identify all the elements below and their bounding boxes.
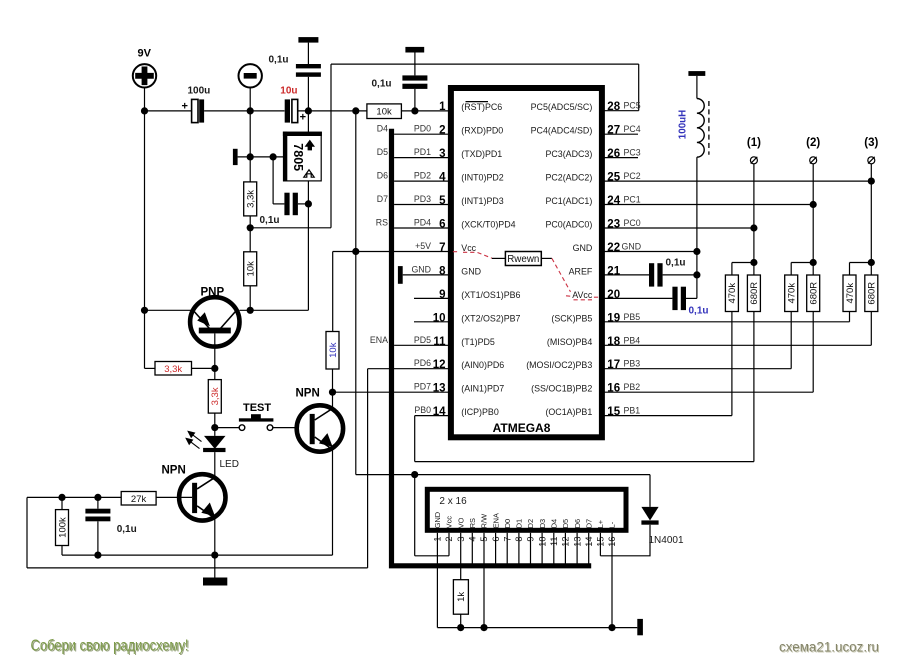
footer slogan [31,638,190,656]
svg-text:9: 9 [439,289,445,301]
resistor 470k (1) [725,275,738,312]
svg-text:10k: 10k [376,107,392,118]
wire LCD pin6 ena to bus [495,533,497,564]
resistor 470k (2) [785,275,798,312]
svg-text:(ICP)PB0: (ICP)PB0 [461,407,499,417]
svg-text:D4: D4 [550,519,559,528]
wire 7805 input [307,111,309,132]
svg-text:0,1u: 0,1u [260,215,280,226]
svg-text:(INT1)PD3: (INT1)PD3 [461,196,503,206]
wire pin20 row [604,297,672,299]
wire base rail bypass loop [27,369,368,568]
svg-text:12: 12 [433,359,446,371]
wire LCD pin1 gnd [436,533,438,628]
svg-text:PC4(ADC4/SD): PC4(ADC4/SD) [531,126,593,136]
svg-text:(SS/OC1B)PB2: (SS/OC1B)PB2 [531,384,592,394]
voltage regulator 7805 [283,132,322,182]
wire 3,3k to LED [214,413,216,436]
node dot minus rail [247,107,254,114]
svg-text:PB3: PB3 [624,359,641,369]
svg-text:PC0: PC0 [624,218,641,228]
wire LCD pin16 to gnd row [611,533,613,628]
svg-text:(SCK)PB5: (SCK)PB5 [551,313,592,323]
svg-text:GND: GND [411,264,431,274]
svg-text:24: 24 [607,195,620,207]
IC U1 ATMEGA8 body [451,88,602,437]
svg-text:26: 26 [607,148,620,160]
LED emission arrows [186,431,201,448]
svg-text:2: 2 [439,125,445,137]
pushbutton TEST [239,402,274,431]
ground bar at 7805 gnd pin [233,149,238,165]
resistor 100k [56,497,69,555]
svg-text:AVcc: AVcc [572,290,593,300]
wire 9V to 3,3k [145,367,156,369]
wire pin26 stub [604,157,638,159]
svg-text:0,1u: 0,1u [117,524,137,535]
svg-text:PC4: PC4 [624,124,641,134]
wire pin9 stub [414,297,449,299]
svg-text:RS: RS [468,518,477,528]
node dot LED/TEST [211,424,218,431]
svg-text:(XCK/T0)PD4: (XCK/T0)PD4 [461,220,515,230]
node dot 100k top [58,494,65,501]
node dot A [247,224,254,231]
svg-text:100u: 100u [188,86,211,97]
svg-text:PC3: PC3 [624,148,641,158]
pin numbers left 1-14 [433,101,446,418]
bus-side labels D4-D7 RS ENA [370,124,388,345]
outside labels left of IC [411,124,431,415]
ground bar above C 0,1u [298,37,318,43]
svg-text:PC2(ADC2): PC2(ADC2) [545,173,592,183]
resistor 680R (1) [747,275,760,312]
svg-text:Собери свою радиосхему!: Собери свою радиосхему! [31,638,189,655]
node dot t1/pc0 [750,224,757,231]
node dot RST/10k left [352,107,359,114]
svg-text:PB4: PB4 [624,335,641,345]
svg-text:100k: 100k [57,517,68,538]
IC inside pin labels right [526,102,593,417]
svg-text:L-: L- [608,521,617,528]
svg-text:(INT0)PD2: (INT0)PD2 [461,173,503,183]
wire pin28 to top rail [604,110,638,112]
svg-text:2 x 16: 2 x 16 [439,496,467,507]
wire 10k to Q3 collector [332,369,334,409]
svg-text:ATMEGA8: ATMEGA8 [493,421,551,435]
capacitor 0,1u (7805 output) [260,193,309,227]
node dot pair2 top [810,259,817,266]
wire pin14 row [415,312,754,462]
wire gnd stub [214,555,216,577]
svg-text:(MOSI/OC2)PB3: (MOSI/OC2)PB3 [526,360,592,370]
svg-text:NPN: NPN [162,465,186,477]
svg-text:680R: 680R [809,282,820,305]
svg-text:0,1u: 0,1u [269,55,289,66]
svg-text:TEST: TEST [243,402,271,414]
capacitor 0,1u (RST) [372,53,428,111]
capacitor 0,1u (AVcc, blue label) [672,287,708,317]
svg-text:GND: GND [461,266,481,276]
wire pin22 gnd row [604,251,697,253]
resistor 680R (3) [865,275,878,312]
svg-text:PD1: PD1 [414,147,431,157]
svg-text:PNP: PNP [201,287,225,299]
wire LCD pin2 vcc [415,475,449,556]
svg-text:PD3: PD3 [414,194,431,204]
resistor 27k [121,492,156,506]
svg-text:100uH: 100uH [677,110,688,139]
node dot LCD Vcc tap [411,471,418,478]
svg-text:0,1u: 0,1u [689,306,709,317]
svg-text:10u: 10u [280,86,297,97]
ground bar above C4 [405,47,424,53]
svg-text:GND: GND [622,241,642,251]
svg-text:(RST)PC6: (RST)PC6 [461,102,502,112]
wire bypass cap leg [273,157,284,204]
wire pin6 stub to bus [394,227,448,229]
svg-text:(2): (2) [806,137,820,149]
capacitor 0,1u (AREF) [649,257,697,286]
node dot cap top [94,494,101,501]
svg-text:PB2: PB2 [624,382,641,392]
pin numbers right 28-15 [607,101,620,418]
svg-text:D1: D1 [515,519,524,528]
svg-text:RS: RS [376,218,388,228]
wire riser to top rail [330,64,332,228]
svg-text:LED: LED [220,459,239,470]
svg-text:PC1(ADC1): PC1(ADC1) [545,196,592,206]
svg-text:5: 5 [439,195,446,207]
svg-text:(XT2/OS2)PB7: (XT2/OS2)PB7 [461,313,520,323]
ground bar LCD [637,619,643,635]
svg-text:PD5: PD5 [414,335,431,345]
wire pin19 row to 470k3 [604,312,849,322]
svg-text:4: 4 [439,172,446,184]
node dot collector [247,307,254,314]
node dot t2/pc1 [810,201,817,208]
svg-text:PB5: PB5 [624,312,641,322]
svg-text:D7: D7 [377,194,388,204]
svg-text:27: 27 [607,125,620,137]
wire pin23 row to terminal 1 [604,227,754,229]
wire LCD pins D0-D7 to bus [507,533,589,564]
node dot t3/pc2 [868,178,875,185]
wire pin2 stub to bus [394,133,448,135]
svg-text:21: 21 [607,265,620,277]
svg-text:R/W: R/W [480,514,489,528]
node dot 1k gnd [457,624,464,631]
svg-text:3,3k: 3,3k [246,190,257,208]
svg-text:PD2: PD2 [414,171,431,181]
svg-text:D6: D6 [377,171,388,181]
LCD module 2x16 [427,489,626,530]
battery minus terminal [239,64,262,87]
svg-text:PD6: PD6 [414,358,431,368]
wire gnd row left [62,554,333,556]
junction dot gnd/bypass [270,153,277,160]
wire +5V row to IC pin7 [333,251,449,253]
wire terminal3 column [870,164,872,263]
svg-text:0,1u: 0,1u [666,257,686,268]
svg-text:(1): (1) [747,137,761,149]
transistor Q1 PNP [190,297,239,346]
wire pin17 row to 470k2 [604,312,791,369]
svg-text:Rwewn: Rwewn [507,254,539,265]
node dot pair3 top [868,259,875,266]
wire LCD pin4 rs to bus [471,533,473,564]
wire terminal2 column [812,164,814,263]
svg-text:(AIN1)PD7: (AIN1)PD7 [461,384,504,394]
svg-text:D5: D5 [561,519,570,528]
svg-text:(AIN0)PD6: (AIN0)PD6 [461,360,504,370]
capacitor 100u [182,86,211,123]
wire emitter row [145,309,194,311]
svg-text:+5V: +5V [415,241,431,251]
svg-text:L+: L+ [596,520,605,528]
wire node A to riser [250,227,331,229]
wire PNP emitter feed [144,111,146,369]
node dot 9V rail [141,107,148,114]
svg-text:680R: 680R [867,282,878,305]
svg-text:(TXD)PD1: (TXD)PD1 [461,149,502,159]
svg-text:(XT1/OS1)PB6: (XT1/OS1)PB6 [461,290,520,300]
wire +5V to PD7 pullup [332,252,334,332]
svg-text:схема21.ucoz.ru: схема21.ucoz.ru [779,639,879,655]
wire inductor to gnd net [696,157,698,298]
svg-text:PC1: PC1 [624,195,641,205]
wire pin10 stub [414,321,449,323]
node dot PNP base [211,365,218,372]
svg-text:470k: 470k [787,283,798,304]
wire button to Q3 base [273,427,310,429]
svg-text:1N4001: 1N4001 [649,535,684,546]
svg-text:15: 15 [607,406,620,418]
wire LED node to button [215,427,239,429]
svg-text:(RXD)PD0: (RXD)PD0 [461,126,503,136]
node dot pair1 top [750,259,757,266]
svg-text:NPN: NPN [296,388,320,400]
wire pin12 row [368,368,449,370]
svg-text:470k: 470k [845,283,856,304]
svg-text:1k: 1k [456,592,467,602]
svg-text:PD4: PD4 [414,218,431,228]
svg-text:680R: 680R [749,282,760,305]
wire pin15 row to 470k1 [604,312,732,416]
node dot inductor/gnd22 [693,248,700,255]
wire 3,3k to base node [192,367,215,369]
node dot 7805 input [305,107,312,114]
wire pair1 top link [732,263,754,276]
svg-text:23: 23 [607,219,620,231]
svg-text:VO: VO [456,517,465,528]
svg-text:14: 14 [433,406,446,418]
outside labels right of IC [622,101,642,416]
svg-text:1: 1 [439,101,446,113]
svg-text:10k: 10k [328,342,339,358]
wire pin24 row to terminal 2 [604,204,813,206]
LED D1 [203,436,225,478]
svg-text:+: + [300,112,306,124]
svg-text:(T1)PD5: (T1)PD5 [461,337,495,347]
wire LCD gnd bottom row [437,627,637,629]
svg-text:PB0: PB0 [414,405,431,415]
svg-text:(MISO)PB4: (MISO)PB4 [547,337,592,347]
wire top rail to pin28 [638,64,640,111]
wire 9V plus stem [144,88,146,111]
svg-text:25: 25 [607,172,620,184]
capacitor 10u [280,86,306,124]
wire LCD pin5 rw to gnd [483,533,485,628]
wire +5V riser from RST node [355,111,357,252]
node dot PD7/collector [329,389,336,396]
svg-text:D7: D7 [584,519,593,528]
svg-text:D0: D0 [503,519,512,528]
svg-text:17: 17 [607,359,620,371]
data bus thick line [392,129,592,566]
junction dot gnd/3.3k column [247,153,254,160]
node dot PNP emitter [141,307,148,314]
svg-text:ENA: ENA [370,335,388,345]
svg-text:PC5: PC5 [624,101,641,111]
battery plus terminal 9V [133,64,156,87]
wire 7805 gnd line [238,156,284,158]
wire pin18 row to 680R3 [604,312,871,346]
LCD pin name labels [433,512,617,528]
svg-text:D5: D5 [377,147,388,157]
IC inside pin labels left [461,102,520,417]
svg-text:AREF: AREF [569,266,593,276]
wire main rail y=111 [145,110,449,112]
wire collector row [240,309,309,311]
svg-text:+: + [182,100,188,112]
svg-text:D4: D4 [377,124,388,134]
wire 3.3k to node A [249,216,251,252]
svg-text:D2: D2 [526,519,535,528]
svg-text:470k: 470k [727,283,738,304]
wire pin21 row [604,274,649,276]
node dot rw gnd [480,624,487,631]
wire Q3 emitter down [332,450,334,555]
terminal (2) [806,137,820,164]
svg-text:PC3(ADC3): PC3(ADC3) [545,149,592,159]
wire PNP base down [214,333,216,379]
svg-text:GND: GND [573,243,593,253]
svg-text:PC0(ADC0): PC0(ADC0) [545,220,592,230]
svg-text:27k: 27k [131,494,147,505]
svg-text:7805: 7805 [291,143,305,171]
wire pin11 stub to bus [394,344,448,346]
svg-text:Vcc: Vcc [461,243,476,253]
wire minus stem [249,88,251,182]
svg-text:PB1: PB1 [624,406,641,416]
transistor Q3 NPN (right) [297,405,343,451]
wire Q2 emitter down [214,519,216,555]
svg-text:3,3k: 3,3k [210,387,221,405]
svg-text:(OC1A)PB1: (OC1A)PB1 [545,407,592,417]
wire pin3 stub to bus [394,157,448,159]
node dot cap bottom [94,552,101,559]
wire top rail [331,63,639,65]
node dot RST cap [411,107,418,114]
wire pin4 stub to bus [394,180,448,182]
LCD pin numbers 1-16 [433,537,618,547]
svg-text:ENA: ENA [491,513,500,528]
svg-text:GND: GND [433,512,442,528]
svg-text:7: 7 [439,242,445,254]
resistor 10k (blue, PD7 pullup) [326,332,339,370]
resistor 680R (2) [807,275,820,312]
transistor Q2 NPN (left) [179,474,225,520]
diode D2 1N4001 [600,475,658,556]
ground bar bottom [203,578,227,586]
resistor 10k (vertical under node A) [244,252,257,286]
svg-text:11: 11 [433,336,446,348]
wire +5V distribution row [356,252,650,475]
node dot emitter gnd [211,552,218,559]
wire 10k to collector node [249,286,251,311]
svg-text:10: 10 [433,312,446,324]
overline RST [466,101,489,103]
wire pin16 row to 680R2 [604,312,813,393]
wire LCD pin15 backlight [599,533,601,556]
capacitor 0,1u (base filter) [85,497,136,555]
wire terminal1 column [753,164,755,263]
terminal (1) [747,137,761,164]
svg-text:PD0: PD0 [414,124,431,134]
inductor L1 100uH [677,76,709,157]
resistor 3,3k (horizontal) [155,362,192,376]
svg-text:(3): (3) [864,137,878,149]
wire 7805 output [307,181,309,310]
wire pin13 row to pullup node [333,391,449,393]
node dot aref cap [693,271,700,278]
wire pair3 top link [850,263,872,276]
wire pin5 stub to bus [394,204,448,206]
wire 27k rail left [27,496,121,498]
svg-text:28: 28 [607,101,620,113]
svg-text:10k: 10k [246,261,257,277]
svg-text:3,3k: 3,3k [164,364,182,375]
wire pin8 gnd stub [403,274,449,276]
wire 1k to gnd row [460,614,462,627]
svg-text:19: 19 [607,312,620,324]
svg-text:13: 13 [433,383,446,395]
svg-text:Vcc: Vcc [445,516,454,529]
wire LCD pin3 vo [460,533,462,580]
svg-text:20: 20 [607,289,620,301]
svg-text:D3: D3 [538,519,547,528]
resistor 3,3k (red vertical) [208,380,221,414]
capacitor 0,1u (7805 input) [269,43,321,111]
node dot +5V [352,248,359,255]
svg-text:18: 18 [607,336,620,348]
svg-text:16: 16 [607,383,620,395]
svg-text:0,1u: 0,1u [372,79,392,90]
wire pin25 row to terminal 3 [604,180,871,182]
resistor 470k (3) [843,275,856,312]
node dot pin16 gnd [608,624,615,631]
resistor 3,3k (upper vertical) [244,182,257,216]
ground bar at pin8 [398,266,403,284]
svg-text:6: 6 [439,219,445,231]
resistor Rwewn (internal, dashed net) [453,252,600,300]
svg-text:PD7: PD7 [414,382,431,392]
svg-text:9V: 9V [138,48,152,60]
wire pair2 top link [791,263,813,276]
svg-text:3: 3 [439,148,445,160]
resistor 10k (RST pullup) [367,104,402,119]
